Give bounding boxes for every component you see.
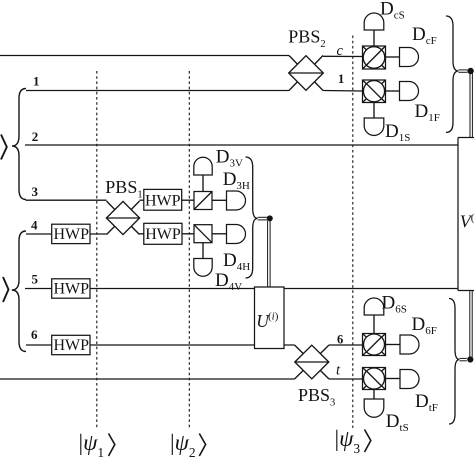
detector DcS dome bbox=[364, 13, 384, 30]
PBS3 polarizing beam splitter bbox=[295, 345, 329, 379]
brace left group 123 bbox=[12, 89, 26, 200]
wire 6 output bbox=[329, 344, 363, 346]
svg-text:HWP: HWP bbox=[54, 281, 90, 298]
svg-text:PBS2: PBS2 bbox=[288, 27, 325, 51]
svg-text:HWP: HWP bbox=[145, 226, 181, 243]
svg-text:c: c bbox=[337, 43, 344, 59]
svg-text:DcF: DcF bbox=[412, 24, 437, 47]
svg-text:6: 6 bbox=[337, 333, 343, 347]
node dot bottom bbox=[467, 356, 473, 362]
svg-text:D6S: D6S bbox=[382, 293, 407, 316]
ket bracket psi2 bbox=[199, 434, 205, 457]
detector DtS dome bbox=[364, 399, 384, 417]
svg-text:DtF: DtF bbox=[415, 391, 438, 414]
box V left edge bbox=[457, 138, 459, 291]
svg-text:t: t bbox=[336, 363, 341, 379]
detector D1F bbox=[400, 82, 419, 101]
svg-text:(i): (i) bbox=[268, 311, 279, 323]
svg-text:|ψ1: |ψ1 bbox=[79, 430, 105, 460]
analyzer cube 1 bbox=[363, 80, 386, 103]
classical channel down to V bbox=[470, 74, 472, 138]
svg-text:D1S: D1S bbox=[385, 121, 410, 144]
wire top line c input bbox=[0, 55, 289, 57]
svg-text:PBS3: PBS3 bbox=[298, 385, 335, 409]
dashed line psi3 bbox=[352, 36, 354, 429]
wire cube t to DtF bbox=[386, 378, 401, 380]
wire line 4 HWP to PBS1 bbox=[90, 233, 107, 235]
svg-text:D3V: D3V bbox=[216, 147, 243, 170]
svg-text:D3H: D3H bbox=[223, 169, 250, 192]
wire line 1 bbox=[26, 90, 289, 92]
PBS2 polarizing beam splitter bbox=[289, 56, 324, 91]
HWP box line 6 left bbox=[52, 335, 90, 354]
svg-text:PBS1: PBS1 bbox=[105, 177, 142, 201]
detector D1S dome bbox=[364, 118, 384, 135]
wire cube3 to D3H bbox=[212, 199, 227, 201]
dashed line psi1 bbox=[96, 71, 98, 428]
box V bottom edge bbox=[458, 290, 474, 292]
svg-text:1: 1 bbox=[33, 74, 40, 89]
classical channel down to U bbox=[268, 221, 271, 287]
wire line 3 bbox=[26, 199, 107, 201]
svg-text:HWP: HWP bbox=[54, 226, 90, 243]
wire line 4 left bbox=[26, 233, 52, 235]
svg-text:3: 3 bbox=[32, 184, 39, 199]
ket input 2 bbox=[3, 277, 9, 302]
HWP box after PBS1 upper bbox=[144, 189, 182, 210]
svg-text:HWP: HWP bbox=[145, 192, 181, 209]
detector DtF bbox=[400, 370, 419, 389]
detector D4V dome bbox=[194, 259, 212, 277]
node dot top bbox=[467, 68, 473, 74]
wire cube4 down to D4V bbox=[202, 243, 204, 259]
svg-text:1: 1 bbox=[338, 72, 344, 86]
wire cube 1 down to D1S bbox=[373, 103, 375, 119]
brace detectors c1 top right bbox=[446, 16, 459, 133]
wire cube4 to D4H bbox=[212, 233, 227, 235]
detector D3V dome bbox=[194, 157, 212, 175]
beam splitter cube 3 bbox=[194, 192, 212, 210]
wire cube 6 up to D6S bbox=[373, 315, 375, 334]
svg-text:D6F: D6F bbox=[412, 314, 437, 337]
node PBS1 diagonals bbox=[107, 201, 140, 235]
brace left group 456 bbox=[12, 231, 26, 352]
HWP box line 5 left bbox=[52, 279, 90, 298]
svg-text:D4V: D4V bbox=[215, 270, 242, 293]
detector D3H bbox=[227, 191, 246, 210]
svg-text:HWP: HWP bbox=[54, 337, 90, 354]
svg-text:5: 5 bbox=[32, 272, 39, 287]
svg-text:|ψ2: |ψ2 bbox=[170, 430, 196, 460]
wire cube c to DcF bbox=[386, 56, 400, 58]
wire HWP to cube4 bbox=[182, 233, 194, 235]
box V top edge bbox=[458, 137, 474, 139]
ket input 1 bbox=[1, 135, 7, 160]
wire cube 1 to D1F bbox=[386, 90, 400, 92]
classical stub bottom bbox=[460, 358, 467, 360]
brace detectors 34 bbox=[246, 157, 258, 278]
detector D4H bbox=[227, 225, 246, 244]
wire line 5 bbox=[25, 288, 458, 290]
wire cube3 up to D3V bbox=[202, 175, 204, 192]
classical stub mid bbox=[258, 217, 268, 220]
wire c output bbox=[323, 55, 363, 57]
svg-text:6: 6 bbox=[31, 327, 38, 342]
svg-text:4: 4 bbox=[31, 217, 38, 232]
wire PBS1 to HWP upper bbox=[140, 199, 144, 201]
ket bracket psi3 bbox=[365, 430, 371, 453]
svg-text:2: 2 bbox=[32, 129, 39, 144]
wire line 6 bbox=[26, 344, 295, 346]
detector D6F bbox=[400, 335, 419, 354]
analyzer cube t bbox=[363, 368, 386, 390]
node PBS2 diagonals bbox=[289, 56, 323, 91]
brace detectors 6t bottom right bbox=[449, 299, 460, 425]
wire PBS1 to HWP lower bbox=[140, 233, 144, 235]
beam splitter cube 4 bbox=[194, 225, 212, 243]
wire cube t down to DtS bbox=[373, 390, 375, 400]
wire cube c up to DcS bbox=[373, 30, 375, 46]
classical channel up to V bbox=[470, 291, 472, 358]
wire cube 6 to D6F bbox=[386, 344, 401, 346]
wire t output bbox=[329, 378, 363, 380]
svg-text:D1F: D1F bbox=[415, 101, 440, 124]
ket bracket psi1 bbox=[109, 434, 115, 457]
node dot mid bbox=[267, 215, 273, 221]
wire 1 output bbox=[323, 90, 363, 93]
node PBS3 diagonals bbox=[295, 345, 330, 379]
PBS1 polarizing beam splitter bbox=[106, 201, 139, 234]
analyzer cube 6 bbox=[363, 334, 386, 356]
dashed line psi2 bbox=[188, 71, 190, 428]
svg-text:DtS: DtS bbox=[386, 411, 409, 434]
unitary box U bbox=[255, 287, 285, 349]
detector D6S dome bbox=[364, 298, 384, 315]
analyzer cube c bbox=[363, 46, 386, 69]
HWP box after PBS1 lower bbox=[144, 223, 182, 244]
wire line t bottom bbox=[0, 378, 295, 380]
svg-text:DcS: DcS bbox=[380, 0, 405, 21]
svg-text:|ψ3: |ψ3 bbox=[335, 426, 361, 456]
wire line 2 bbox=[25, 144, 458, 146]
detector DcF bbox=[400, 48, 419, 67]
HWP box line 4 left bbox=[52, 224, 90, 243]
wire HWP to cube3 bbox=[182, 199, 194, 201]
classical stub top bbox=[459, 70, 468, 72]
